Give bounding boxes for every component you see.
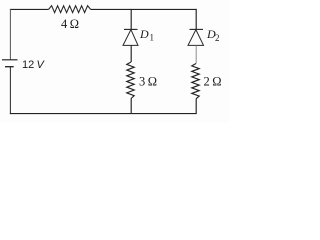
wire: node A down to diode D1 cathode [130,9,132,29]
battery 12V short plate [5,66,14,68]
diode D1 triangle [123,30,138,46]
svg-text:2 Ω: 2 Ω [204,75,222,89]
wire: D2 anode to resistor 2ohm (light segment) [195,45,197,63]
wire bottom rail [10,113,197,115]
wire: 2ohm to bottom rail [195,99,197,114]
wire: 3ohm to bottom rail [130,99,132,115]
diode D2 cathode bar [190,28,204,30]
svg-text:D: D [139,27,149,41]
svg-text:12 V: 12 V [22,59,45,71]
battery 12V long plate [2,59,18,61]
resistor 3ohm zigzag [127,62,134,99]
wire left side lower: battery to bottom-left corner [9,67,11,114]
wire left side upper: top-left corner down to battery [9,9,11,60]
svg-text:3 Ω: 3 Ω [139,75,157,89]
wire top: resistor to node B (top-right corner) [91,8,197,10]
svg-text:4 Ω: 4 Ω [61,17,79,31]
wire top: battery positive to node A [10,8,49,10]
resistor 2ohm zigzag [192,64,199,99]
wire right side: node B down to diode D2 cathode [195,9,197,29]
diode D1 cathode bar [124,28,138,30]
svg-text:1: 1 [150,33,155,43]
diode D2 triangle [188,30,204,46]
resistor R 4ohm zigzag [49,6,91,13]
svg-text:2: 2 [215,33,220,43]
wire: D1 anode to resistor 3ohm [130,45,132,62]
